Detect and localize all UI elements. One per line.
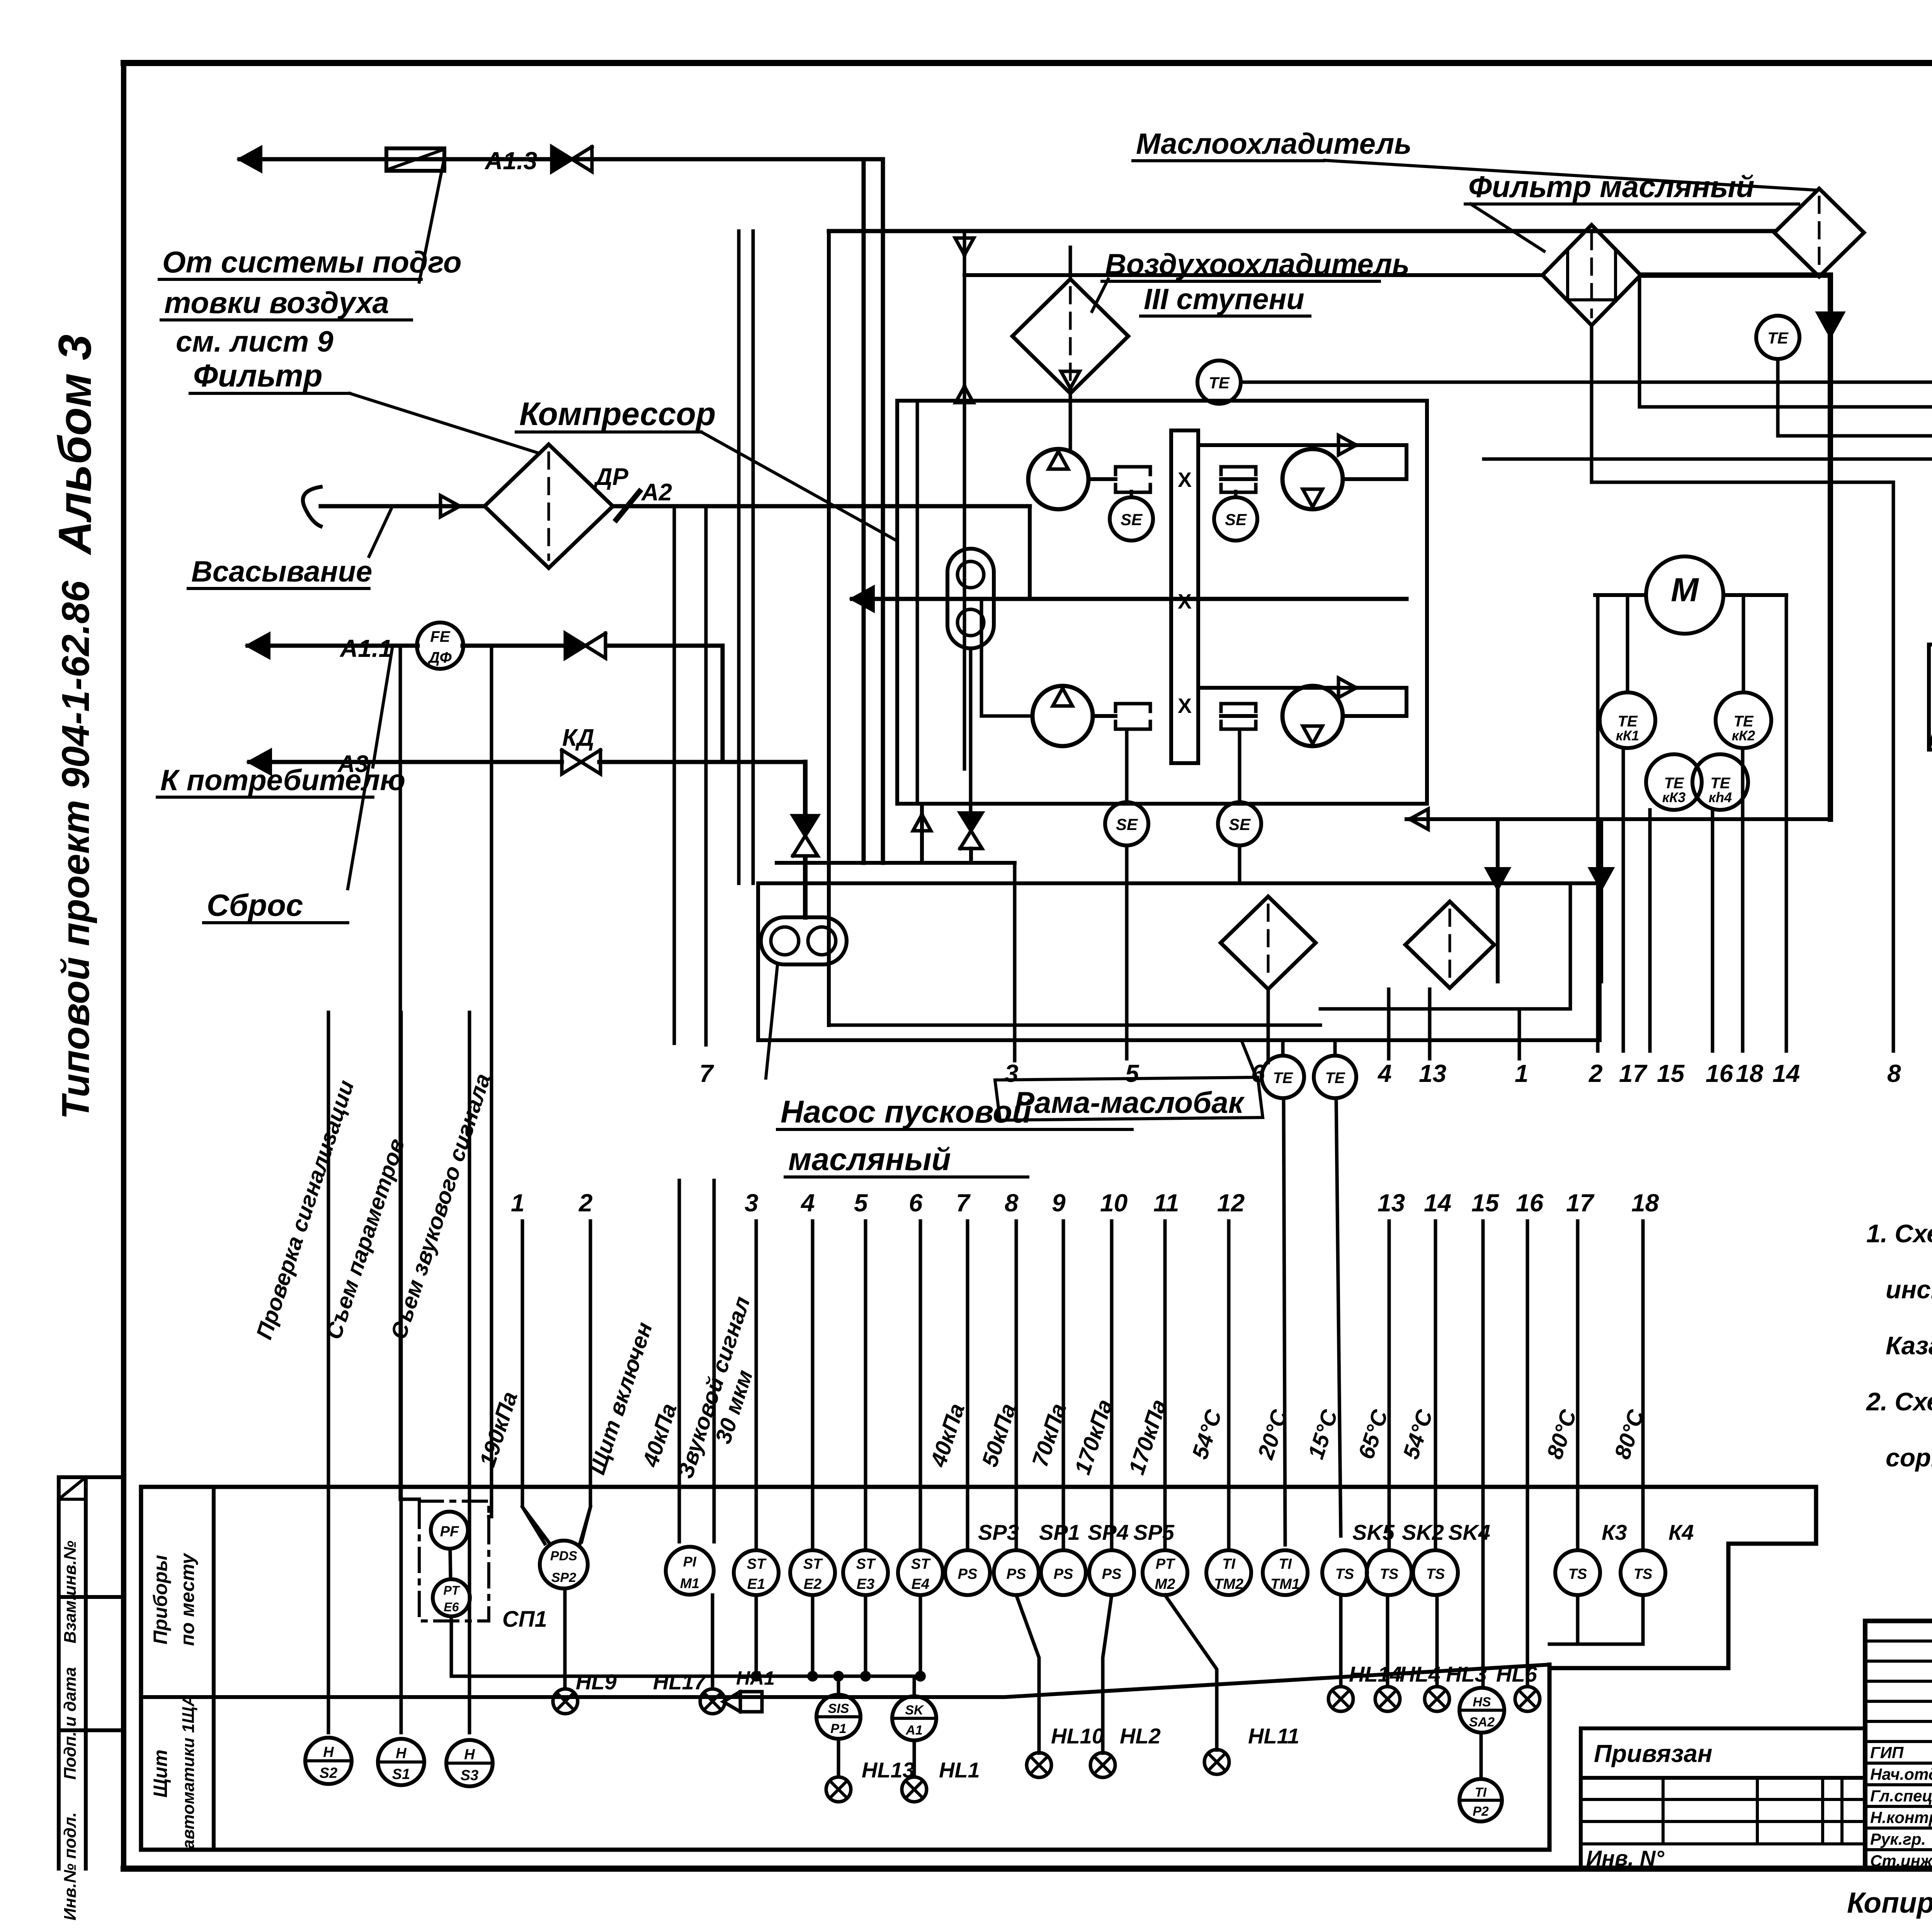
svg-text:КД: КД [562, 724, 594, 751]
svg-text:А3: А3 [337, 751, 368, 777]
svg-text:SE: SE [1225, 510, 1247, 529]
svg-text:18: 18 [1631, 1189, 1659, 1217]
svg-text:Подп. и дата: Подп. и дата [61, 1667, 80, 1779]
svg-text:Рама-маслобак: Рама-маслобак [1014, 1085, 1245, 1119]
svg-text:кh4: кh4 [1709, 789, 1732, 805]
svg-text:TI: TI [1222, 1556, 1236, 1572]
svg-text:TS: TS [1380, 1566, 1399, 1582]
svg-text:TS: TS [1634, 1566, 1653, 1582]
svg-text:M2: M2 [1155, 1576, 1175, 1592]
svg-text:FE: FE [430, 628, 450, 645]
svg-text:SK2: SK2 [1402, 1520, 1444, 1544]
svg-text:SE: SE [1229, 815, 1251, 833]
svg-text:Ст.инж.: Ст.инж. [1870, 1852, 1932, 1870]
svg-text:PT: PT [444, 1583, 460, 1597]
svg-text:ST: ST [856, 1556, 876, 1572]
svg-text:TE: TE [1325, 1070, 1345, 1087]
svg-text:15: 15 [1657, 1060, 1685, 1087]
svg-text:кК1: кК1 [1616, 728, 1639, 743]
svg-text:4: 4 [1377, 1060, 1392, 1087]
svg-text:Гл.спец.: Гл.спец. [1870, 1787, 1932, 1805]
svg-text:S1: S1 [392, 1766, 410, 1782]
svg-text:HL14: HL14 [1349, 1662, 1402, 1686]
svg-text:14: 14 [1772, 1060, 1800, 1087]
svg-text:ST: ST [747, 1556, 767, 1572]
svg-text:Щит: Щит [150, 1750, 171, 1798]
svg-text:5: 5 [1125, 1060, 1139, 1087]
svg-text:7: 7 [956, 1189, 971, 1217]
svg-text:Нач.отд.: Нач.отд. [1870, 1765, 1932, 1783]
svg-text:Типовой проект 904-1-62.86: Типовой проект 904-1-62.86 [54, 580, 97, 1119]
svg-text:S2: S2 [320, 1765, 337, 1781]
svg-text:Инв.№ подл.: Инв.№ подл. [61, 1812, 80, 1920]
svg-text:SK5: SK5 [1352, 1520, 1395, 1544]
svg-text:E3: E3 [857, 1576, 874, 1592]
svg-text:16: 16 [1706, 1060, 1733, 1087]
svg-text:S3: S3 [461, 1767, 478, 1784]
svg-text:E1: E1 [747, 1576, 765, 1592]
svg-text:TS: TS [1426, 1566, 1445, 1582]
svg-text:SK: SK [905, 1703, 924, 1718]
svg-text:товки воздуха: товки воздуха [164, 286, 389, 320]
svg-text:TS: TS [1568, 1566, 1587, 1582]
svg-text:HL10: HL10 [1051, 1724, 1104, 1748]
svg-text:TM2: TM2 [1214, 1576, 1243, 1592]
svg-text:SP3: SP3 [978, 1520, 1019, 1544]
svg-text:масляный: масляный [788, 1142, 951, 1177]
svg-text:TE: TE [1209, 374, 1230, 392]
svg-text:ST: ST [803, 1556, 823, 1572]
svg-text:TI: TI [1475, 1785, 1487, 1800]
svg-text:Рук.гр.: Рук.гр. [1870, 1830, 1926, 1848]
svg-text:HL4: HL4 [1400, 1662, 1440, 1686]
svg-text:Фильтр масляный: Фильтр масляный [1468, 170, 1754, 204]
svg-text:PT: PT [1156, 1556, 1175, 1572]
svg-text:III ступени: III ступени [1144, 283, 1304, 316]
svg-text:SP5: SP5 [1133, 1520, 1175, 1544]
svg-text:2. Схема выполнена для компр: 2. Схема выполнена для компрессорного аг… [1866, 1387, 1932, 1416]
svg-text:PDS: PDS [550, 1549, 577, 1563]
svg-text:SE: SE [1121, 510, 1143, 529]
svg-text:A1: A1 [905, 1723, 922, 1738]
svg-text:Е6: Е6 [444, 1600, 459, 1614]
svg-text:HL3: HL3 [1446, 1662, 1487, 1686]
svg-text:Н.контр.: Н.контр. [1870, 1808, 1932, 1827]
svg-text:Маслоохладитель: Маслоохладитель [1136, 128, 1412, 160]
svg-text:по месту: по месту [177, 1553, 198, 1646]
svg-text:17: 17 [1619, 1060, 1648, 1087]
svg-text:HL2: HL2 [1120, 1724, 1161, 1748]
svg-text:Всасывание: Всасывание [191, 555, 372, 588]
svg-text:P1: P1 [830, 1721, 847, 1736]
svg-text:ДР: ДР [593, 464, 629, 490]
svg-text:10: 10 [1100, 1189, 1128, 1217]
svg-text:ГИП: ГИП [1870, 1743, 1904, 1762]
svg-text:От системы подго: От системы подго [162, 245, 462, 279]
svg-text:17: 17 [1566, 1189, 1595, 1217]
svg-text:Н: Н [323, 1744, 334, 1760]
svg-text:HA1: HA1 [736, 1667, 775, 1689]
svg-text:11: 11 [1153, 1189, 1179, 1217]
svg-text:7: 7 [699, 1060, 714, 1087]
svg-text:4: 4 [800, 1189, 815, 1217]
svg-text:SP4: SP4 [1088, 1520, 1129, 1544]
svg-text:кК2: кК2 [1732, 728, 1755, 743]
svg-text:ST: ST [911, 1556, 931, 1572]
svg-text:А1.3: А1.3 [484, 147, 537, 175]
svg-text:Насос пусковой: Насос пусковой [781, 1094, 1032, 1129]
svg-text:Инв. N°: Инв. N° [1586, 1846, 1664, 1870]
svg-text:16: 16 [1516, 1189, 1544, 1217]
svg-text:автоматики 1ЩА: автоматики 1ЩА [179, 1694, 198, 1849]
svg-text:1: 1 [511, 1189, 525, 1217]
svg-text:Привязан: Привязан [1594, 1740, 1713, 1767]
svg-text:Копировал Генюк: Копировал Генюк [1847, 1886, 1932, 1919]
svg-text:PS: PS [1054, 1566, 1073, 1582]
svg-text:TE: TE [1273, 1070, 1293, 1087]
svg-text:PF: PF [440, 1524, 459, 1540]
svg-text:К4: К4 [1668, 1520, 1694, 1544]
svg-text:13: 13 [1378, 1189, 1405, 1217]
svg-text:М: М [1671, 571, 1699, 609]
svg-text:СП1: СП1 [502, 1607, 547, 1632]
svg-text:Компрессор: Компрессор [519, 396, 716, 432]
svg-text:1: 1 [1515, 1060, 1529, 1087]
svg-text:SK4: SK4 [1448, 1520, 1490, 1544]
svg-text:HL17: HL17 [653, 1670, 707, 1694]
svg-text:SA2: SA2 [1469, 1715, 1495, 1730]
svg-text:Приборы: Приборы [150, 1555, 171, 1645]
svg-text:8: 8 [1005, 1189, 1019, 1217]
svg-text:Н: Н [464, 1747, 475, 1763]
svg-text:TI: TI [1279, 1556, 1292, 1572]
svg-text:X: X [1178, 590, 1192, 613]
svg-text:Сброс: Сброс [207, 888, 303, 922]
svg-text:PS: PS [1102, 1566, 1122, 1582]
svg-text:1. Схема выполнена на основ: 1. Схема выполнена на основании техничес… [1866, 1219, 1932, 1248]
svg-text:8: 8 [1887, 1060, 1901, 1087]
svg-text:E4: E4 [912, 1576, 929, 1592]
svg-text:3: 3 [745, 1189, 759, 1217]
svg-text:14: 14 [1424, 1189, 1451, 1217]
svg-text:HL9: HL9 [576, 1670, 617, 1694]
svg-text:TM1: TM1 [1270, 1576, 1300, 1592]
svg-text:X: X [1178, 694, 1192, 718]
svg-text:15: 15 [1471, 1189, 1500, 1217]
svg-text:SIS: SIS [828, 1701, 849, 1716]
svg-text:M1: M1 [680, 1575, 699, 1591]
svg-text:А1.1: А1.1 [339, 634, 392, 662]
svg-text:Казанского компрессорного за: Казанского компрессорного завода. [1886, 1331, 1932, 1360]
svg-text:HL13: HL13 [862, 1758, 915, 1782]
svg-text:А2: А2 [641, 479, 672, 506]
svg-text:13: 13 [1419, 1060, 1446, 1087]
svg-text:PI: PI [683, 1554, 697, 1570]
svg-text:Альбом 3: Альбом 3 [49, 334, 101, 555]
svg-text:Фильтр: Фильтр [193, 358, 323, 393]
svg-text:ДФ: ДФ [427, 649, 452, 666]
svg-text:E2: E2 [804, 1576, 821, 1592]
svg-text:12: 12 [1217, 1189, 1245, 1217]
svg-text:PS: PS [1007, 1566, 1026, 1582]
svg-text:9: 9 [1052, 1189, 1066, 1217]
svg-text:см. лист 9: см. лист 9 [176, 325, 333, 358]
svg-text:кК3: кК3 [1662, 789, 1685, 805]
svg-text:SE: SE [1116, 815, 1138, 833]
svg-text:Взам.инв.№: Взам.инв.№ [61, 1541, 80, 1643]
svg-text:X: X [1178, 468, 1192, 492]
svg-text:сорных агрегатов NN2,3,4,5: сорных агрегатов NN2,3,4,5 схема аналоги… [1886, 1443, 1932, 1472]
svg-text:HL11: HL11 [1248, 1724, 1299, 1748]
svg-text:2: 2 [1588, 1060, 1603, 1087]
svg-text:P2: P2 [1473, 1804, 1489, 1819]
svg-text:TE: TE [1767, 329, 1789, 347]
svg-text:HS: HS [1473, 1695, 1491, 1709]
svg-text:Н: Н [396, 1745, 407, 1762]
svg-text:инструкции по эксплуатации: инструкции по эксплуатации 0.002.769 и ч… [1886, 1275, 1932, 1304]
svg-text:HL6: HL6 [1496, 1662, 1537, 1686]
svg-text:SP2: SP2 [551, 1570, 576, 1585]
svg-text:3: 3 [1005, 1060, 1019, 1087]
svg-text:2: 2 [578, 1189, 593, 1217]
svg-text:HL1: HL1 [939, 1758, 980, 1782]
svg-text:6: 6 [909, 1189, 923, 1217]
svg-text:К3: К3 [1602, 1520, 1627, 1544]
svg-text:PS: PS [958, 1566, 978, 1582]
svg-text:SP1: SP1 [1039, 1520, 1080, 1544]
svg-text:5: 5 [854, 1189, 868, 1217]
svg-text:18: 18 [1736, 1060, 1764, 1087]
svg-text:TS: TS [1335, 1566, 1354, 1582]
